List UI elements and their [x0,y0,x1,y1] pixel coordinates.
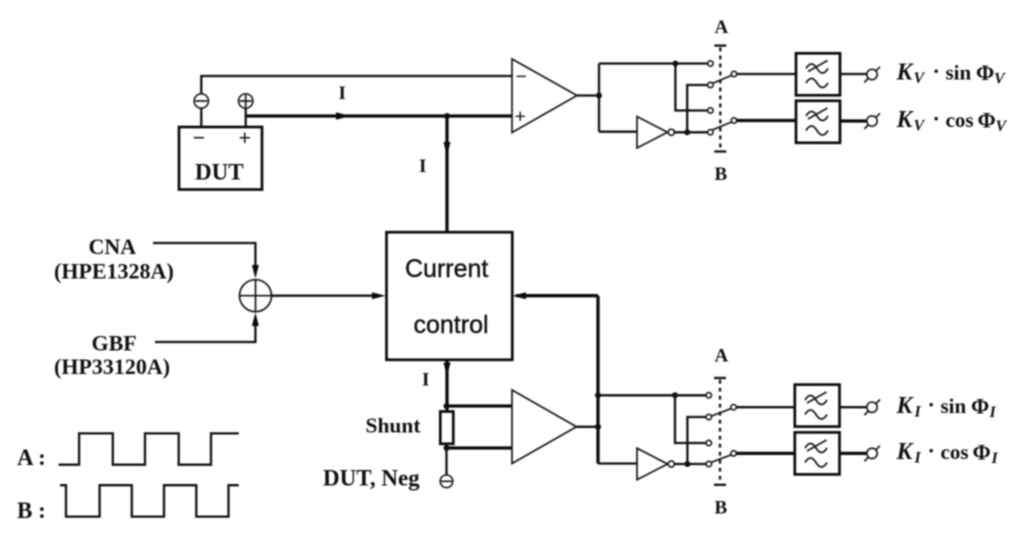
arrow current direction on main wire [336,112,350,119]
switch S1 pole 1 [731,71,736,76]
wire U1 output [577,94,599,96]
wire direct branch vertical [598,64,600,132]
svg-text:K: K [896,439,915,465]
summing junction [240,280,272,312]
svg-text:K: K [896,107,915,133]
svg-text:Shunt: Shunt [366,414,422,438]
svg-text:V: V [914,70,926,87]
low-pass filter F2 [796,101,840,143]
low-pass filter F1 [796,53,840,95]
svg-text:A :: A : [17,445,46,470]
node direct branch split [672,61,678,67]
wire U1 to inverter input [599,131,637,133]
inverter U2 (voltage channel) [637,117,668,149]
switch S1 control line (dashed) [714,44,726,46]
svg-text:cos: cos [941,440,969,464]
waveform A [59,433,239,464]
svg-text:·: · [928,438,935,463]
svg-text:(HPE1328A): (HPE1328A) [54,259,174,284]
switch S2 pole 2 [731,451,736,456]
svg-text:cos: cos [946,108,974,132]
wire inverted branch to contact 2 [687,85,708,132]
node inverted branch split [684,129,690,135]
svg-text:V: V [914,118,926,135]
svg-text:·: · [928,392,935,417]
svg-text:I: I [339,83,346,104]
wire inverted branch to contact 2 (current channel) [687,417,706,464]
switch S2 control line (dashed) [714,377,726,379]
switch S2 pole 1 [731,405,736,410]
node U1 output junction [596,93,602,99]
svg-text:DUT: DUT [195,160,244,185]
wire S1 pole1 to filter F1 [737,73,796,75]
wire F3 output [840,406,867,408]
output terminal T4 [867,448,877,458]
svg-text:B: B [715,498,728,519]
svg-text:+: + [239,125,252,150]
switch S2 throw contact 4 [706,461,711,466]
wire S2 pole1 to filter F3 [736,406,795,408]
wire inverted branch to contact 4 (current channel) [674,463,706,465]
svg-text:A: A [715,17,729,38]
DUT box [179,127,262,190]
current control box [387,232,513,360]
node U3 output junction [595,424,601,430]
svg-text:(HP33120A): (HP33120A) [54,354,170,379]
svg-text:I: I [419,156,426,177]
node direct branch split (current channel) [672,392,678,398]
svg-text:GBF: GBF [92,331,137,356]
svg-text:I: I [914,450,922,467]
svg-text:sin: sin [946,61,972,85]
terminal DUT neg [440,475,453,488]
switch S2 throw contact 1 [706,393,711,398]
wire current control to shunt [445,360,448,412]
node shunt bottom [444,445,450,451]
svg-text:B: B [715,164,728,185]
svg-text:sin: sin [941,394,967,418]
wire main current (DUT plus to U1 non-inverting input) [246,114,512,117]
low-pass filter F3 [795,385,840,427]
svg-text:+: + [515,106,526,128]
wire summing junction to current control [272,295,373,297]
wire shunt bottom to U3 [447,446,513,449]
svg-text:CNA: CNA [89,234,137,259]
svg-text:−: − [193,125,206,150]
svg-text:I: I [422,370,429,391]
wire direct branch to contact 3 [675,64,707,111]
switch S1 pole 2 [731,118,736,123]
waveform B [60,485,239,516]
wire direct branch top to contact 1 [599,62,708,64]
switch S1 throw contact 3 [708,108,713,113]
node J1 (main wire to current control tap) [444,113,450,119]
node feedback top branch [595,392,601,398]
node shunt top [444,403,450,409]
arrow into current control top [444,142,451,156]
wire U3 to inverter input [598,462,637,464]
output terminal T3 [867,402,877,412]
svg-text:control: control [414,311,489,339]
wire GBF to summing junction [155,326,255,342]
switch S1 throw contact 1 [708,61,713,66]
wire U3 output [577,426,599,428]
wire CNA to summing junction [153,243,255,265]
svg-text:K: K [896,60,915,86]
wire S1 pole2 to filter F2 [737,119,796,122]
wire inverted branch to contact 4 [674,131,707,133]
wire direct branch top to contact 1 (current channel) [598,394,706,396]
terminal plus of DUT [239,94,253,108]
svg-text:B :: B : [17,498,46,523]
svg-text:DUT, Neg: DUT, Neg [323,466,420,491]
svg-text:·: · [933,106,940,131]
wire F4 output [840,452,867,455]
svg-text:Φ: Φ [973,440,991,465]
svg-text:Φ: Φ [978,108,996,133]
op-amp U3 (current channel) [512,390,577,464]
switch S2 throw contact 2 [706,414,711,419]
svg-text:Current: Current [405,255,488,283]
svg-text:K: K [896,393,915,419]
wire direct branch to contact 3 (current channel) [675,395,706,443]
switch S2 throw contact 3 [706,440,711,445]
switch S2 lever 2 [711,455,731,463]
switch S1 lever 2 [713,122,732,130]
svg-text:Φ: Φ [976,60,994,85]
switch S1 throw contact 4 [708,130,713,135]
op-amp U1 (voltage channel) [512,59,577,133]
shunt resistor [440,412,453,444]
svg-text:A: A [715,346,729,367]
output terminal T2 [867,116,877,126]
low-pass filter F4 [795,432,840,474]
wire J1 down to current control box [445,116,448,232]
svg-text:·: · [933,59,940,84]
switch S1 throw contact 2 [708,82,713,87]
terminal minus of DUT [194,94,208,108]
wire shunt bottom to DUT neg terminal [445,444,447,475]
svg-text:−: − [516,66,527,88]
wire S2 pole2 to filter F4 [736,452,795,455]
svg-text:Φ: Φ [971,394,989,419]
inverter U4 (current channel) [637,448,668,480]
switch S2 lever 1 [711,409,731,417]
switch S1 lever 1 [713,75,732,83]
node inverted branch split (current channel) [684,461,690,467]
wire feedback (bottom amp output to current control right input) [596,296,599,464]
wire F1 output [840,73,867,75]
svg-text:V: V [996,118,1008,135]
svg-text:I: I [991,450,999,467]
wire F2 output [840,119,867,122]
svg-text:I: I [989,404,997,421]
wire sense top (DUT minus to U1 inverting input) [201,76,512,94]
wire shunt top to U3 [447,404,513,407]
svg-text:I: I [914,404,922,421]
output terminal T1 [867,69,877,79]
svg-text:V: V [994,71,1006,88]
